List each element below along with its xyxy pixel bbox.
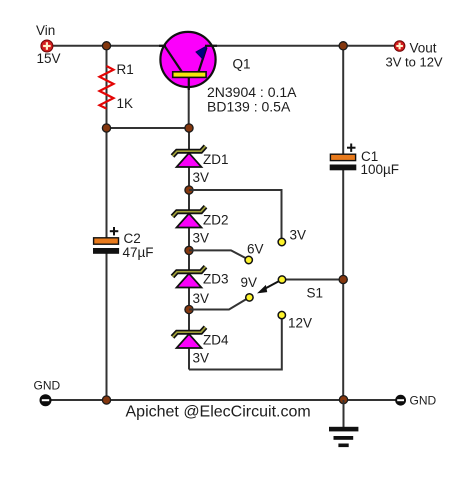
node right rail on ground rail: [339, 396, 347, 404]
resistor R1: [100, 66, 114, 109]
emitter wire stub: [205, 45, 217, 47]
wire C2 bottom to ground rail: [106, 253, 108, 400]
emitter line: [199, 48, 207, 73]
svg-text:Q1: Q1: [233, 56, 251, 71]
wire top-left from Vin to transistor: [52, 45, 164, 47]
node B Vout branch: [339, 42, 347, 50]
node A top of R1: [102, 42, 110, 50]
switch S1: [245, 238, 286, 318]
svg-text:2N3904 : 0.1A: 2N3904 : 0.1A: [207, 84, 297, 100]
wire 9V tap from node ZD3/ZD4 to switch contact: [189, 299, 247, 310]
wire switch pole to right rail: [282, 279, 343, 281]
node mid zener chain top: [185, 124, 193, 132]
node between ZD1 and ZD2: [185, 186, 193, 194]
node C2 bottom on ground rail: [102, 396, 110, 404]
svg-text:12V: 12V: [288, 316, 312, 331]
node between ZD2 and ZD3: [185, 246, 193, 254]
terminal Vin: [41, 40, 53, 52]
svg-text:ZD2: ZD2: [203, 213, 229, 228]
contact 3V: [278, 238, 285, 245]
svg-text:3V: 3V: [193, 231, 210, 246]
wire base of Q1 down to zener chain: [188, 77, 190, 128]
earth ground symbol: [329, 400, 358, 447]
svg-text:GND: GND: [34, 378, 61, 392]
transistor Q1: [159, 32, 217, 90]
capacitor C2: [93, 227, 119, 254]
wire right rail C1 bottom down to ground rail: [342, 170, 344, 400]
pole contact: [278, 276, 285, 283]
zener ZD1: [173, 146, 206, 167]
collector line: [165, 46, 183, 72]
svg-text:3V: 3V: [290, 228, 307, 243]
wire left rail R1 branch down to C2: [106, 46, 108, 239]
terminal Vout: [394, 41, 405, 52]
wire right rail Vout branch down to C1: [342, 46, 344, 155]
svg-text:3V: 3V: [193, 170, 210, 185]
terminal GND right: [395, 395, 406, 406]
svg-text:3V: 3V: [193, 291, 210, 306]
wire 6V tap from node ZD2/ZD3 to switch contact: [189, 250, 247, 258]
base wire inside circle: [188, 77, 190, 90]
wiper arrowhead: [257, 285, 267, 294]
svg-text:3V: 3V: [193, 351, 210, 366]
emitter arrowhead: [196, 46, 207, 59]
wiper arm: [262, 280, 282, 291]
wire top-right from transistor to Vout: [206, 45, 395, 47]
wire ground rail: [51, 399, 396, 401]
contact 6V: [245, 256, 252, 263]
svg-text:Vin: Vin: [36, 23, 55, 38]
base bar: [173, 72, 206, 78]
svg-text:S1: S1: [307, 286, 324, 301]
wire 12V tap from bottom of ZD4 to switch contact: [189, 319, 282, 370]
svg-text:BD139 : 0.5A: BD139 : 0.5A: [207, 99, 291, 115]
svg-text:ZD1: ZD1: [203, 152, 229, 167]
svg-text:C2: C2: [124, 231, 141, 246]
svg-text:R1: R1: [117, 62, 134, 77]
svg-text:9V: 9V: [241, 275, 258, 290]
wire mid horizontal R1 bottom to zener chain: [107, 127, 190, 129]
svg-text:6V: 6V: [247, 242, 264, 257]
contact 12V: [278, 311, 285, 318]
svg-text:47µF: 47µF: [123, 245, 154, 260]
zener ZD4: [173, 327, 206, 348]
svg-text:GND: GND: [410, 394, 437, 408]
svg-text:3V to 12V: 3V to 12V: [386, 55, 443, 70]
collector wire stub: [159, 45, 166, 47]
svg-text:1K: 1K: [117, 96, 134, 111]
node C switch pole to right rail: [339, 275, 347, 283]
wire 3V tap from node ZD1/ZD2 to switch contact: [189, 190, 282, 238]
contact 9V: [246, 294, 253, 301]
terminal GND left: [40, 394, 52, 406]
wire zener chain vertical: [188, 128, 190, 370]
svg-text:Vout: Vout: [410, 40, 437, 55]
svg-text:ZD3: ZD3: [203, 272, 229, 287]
node mid-left R1 bottom: [102, 124, 110, 132]
svg-text:100µF: 100µF: [361, 162, 400, 177]
capacitor C1: [330, 144, 357, 171]
svg-text:Apichet @ElecCircuit.com: Apichet @ElecCircuit.com: [126, 404, 311, 421]
svg-text:15V: 15V: [37, 51, 61, 66]
zener ZD3: [173, 267, 206, 288]
zener ZD2: [173, 207, 206, 228]
svg-text:ZD4: ZD4: [203, 333, 229, 348]
node between ZD3 and ZD4: [185, 305, 193, 313]
